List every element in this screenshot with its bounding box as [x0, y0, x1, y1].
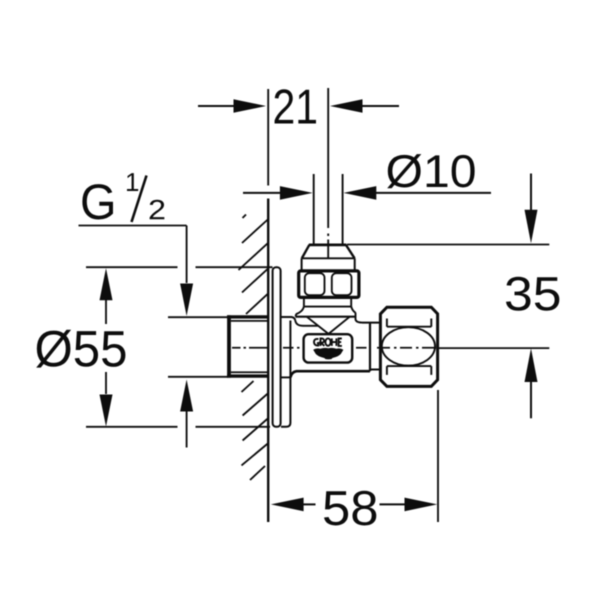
diameter 55 down arrowhead [100, 395, 113, 427]
dimension diameter 10 right arrowhead [344, 186, 377, 200]
compression cone bottom line [301, 257, 355, 259]
dimension 58 left tail [303, 503, 316, 505]
thread crest top band [227, 315, 268, 318]
riser pipe left edge [313, 174, 315, 244]
flare right fillet [356, 313, 363, 323]
dimension 21 line right tail [362, 105, 399, 107]
svg-text:2: 2 [148, 194, 166, 225]
diameter 55 up arrowhead [100, 268, 113, 300]
diameter 55 top extension line [86, 266, 273, 268]
dimension diameter 10 right tail [376, 192, 491, 194]
dimension 21 left arrowhead [234, 99, 267, 113]
upper hex left facet [305, 273, 325, 295]
G 1/2 male thread left end [227, 315, 231, 377]
compression cone top edge [309, 243, 347, 246]
G 1/2 dimension up arrowhead [180, 380, 193, 412]
fraction slash [132, 176, 147, 223]
nut lower facet line [387, 365, 431, 367]
svg-text:58: 58 [322, 482, 379, 536]
G 1/2 leader underline [79, 225, 187, 227]
58 right extension line [437, 390, 439, 522]
G 1/2 dimension vertical upper tail [186, 226, 188, 284]
svg-text:Ø10: Ø10 [385, 145, 476, 197]
dimension diameter 10 left arrowhead [280, 186, 313, 200]
dimension 35 up arrowhead [525, 348, 538, 382]
svg-text:21: 21 [272, 81, 318, 135]
fitting top extension line [347, 244, 549, 246]
body left end line [281, 321, 290, 427]
wall hatching [239, 215, 268, 481]
flare left side [296, 306, 304, 316]
washer left edge [303, 297, 305, 306]
svg-text:Ø55: Ø55 [34, 320, 127, 377]
upper nut collar left [301, 258, 303, 270]
dimension 58 right tail [380, 503, 406, 505]
centerline right extension [439, 347, 550, 349]
dimension 21 right arrowhead [330, 99, 363, 113]
svg-text:G: G [80, 174, 117, 230]
outlet neck bottom [370, 369, 380, 371]
body boss bottom line [281, 376, 291, 378]
thread crest bottom band [227, 374, 268, 377]
dimension 35 lower tail [530, 382, 532, 419]
upper nut collar right [354, 258, 356, 270]
dimension 35 upper tail [530, 174, 532, 211]
diameter 55 dimension line lower segment [105, 372, 107, 394]
dimension 58 right arrowhead [405, 498, 438, 512]
diameter 55 bottom extension line [86, 426, 270, 428]
dimension 21 line left tail [198, 105, 234, 107]
svg-text:35: 35 [504, 268, 562, 321]
washer bottom line [304, 306, 351, 308]
upper hex nut outline [299, 271, 359, 298]
compression cone right side [346, 245, 355, 258]
diameter 55 dimension line upper segment [105, 300, 107, 324]
wall escutcheon flange [273, 267, 281, 427]
flare bottom edge [296, 316, 356, 318]
nut barrel ellipse [382, 327, 435, 365]
supply tailpiece pipe [168, 317, 228, 377]
thread root top line [231, 320, 268, 322]
GROHE label plate [304, 334, 353, 362]
thread root bottom line [231, 371, 268, 373]
dimension 35 down arrowhead [525, 210, 538, 243]
nut facet corner verticals [387, 319, 431, 375]
dimension 58 left arrowhead [271, 498, 304, 512]
dimension diameter 10 left tail [243, 192, 281, 194]
body top left edge [303, 325, 318, 327]
compression nut outline [380, 307, 437, 386]
G 1/2 dimension down arrowhead [180, 284, 193, 317]
GROHE wordmark [314, 338, 342, 346]
body right end cap [369, 323, 371, 372]
upper hex right facet [332, 273, 352, 295]
G 1/2 dimension vertical lower tail [186, 411, 188, 448]
riser pipe vertical centerline [327, 88, 329, 259]
inlet cone vee [307, 317, 350, 334]
nut upper facet line [387, 326, 431, 328]
horizontal axis centerline [232, 347, 436, 349]
riser pipe right edge [342, 174, 344, 244]
washer right edge [350, 297, 352, 306]
GROHE laurel emblem [313, 348, 343, 360]
body bottom edge [290, 371, 370, 377]
flare right side [351, 306, 355, 313]
wall face line [267, 199, 269, 523]
extension line wall face upper [267, 89, 269, 186]
compression cone left side [302, 245, 310, 258]
svg-text:1: 1 [125, 167, 139, 197]
outlet neck top [362, 322, 380, 324]
body boss top line [281, 317, 304, 326]
